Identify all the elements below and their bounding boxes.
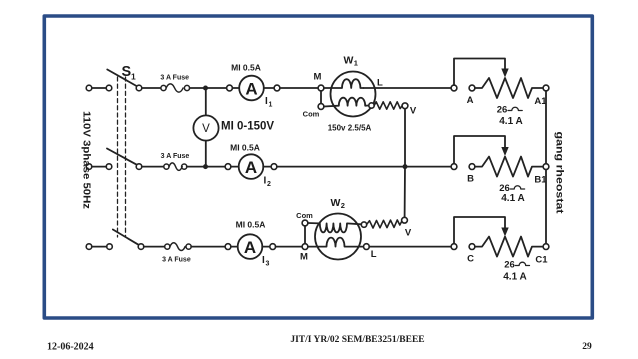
svg-text:V: V (202, 123, 210, 135)
W1 voltage coil (324, 98, 369, 107)
svg-text:3: 3 (266, 261, 270, 268)
fuse F1 (3 A Fuse) (161, 84, 190, 92)
switch S1 pole 3 contact (138, 244, 144, 250)
svg-text:S: S (122, 64, 132, 80)
switch S1 pole 2 contact (136, 164, 142, 170)
W2 voltage coil (308, 223, 361, 232)
wire (232, 87, 239, 89)
W2 voltage-coil terminal (361, 222, 366, 227)
W1 voltage-coil terminal (369, 103, 374, 108)
svg-text:1: 1 (131, 71, 136, 81)
wire: W2 Com-M link (304, 226, 306, 244)
svg-text:M: M (300, 252, 308, 263)
rheostat C terminal C (469, 244, 475, 250)
wattmeter W1 body (331, 72, 376, 117)
fuse F3 (3 A Fuse) (165, 243, 192, 251)
W1 terminal M (318, 85, 324, 91)
wire (263, 166, 271, 168)
rheostat C feed terminal (451, 244, 457, 250)
svg-text:Com: Com (296, 211, 313, 220)
svg-text:W: W (344, 55, 354, 67)
slide border frame (44, 16, 592, 318)
wire: supply pair link row 3 (92, 246, 107, 248)
svg-text:Com: Com (303, 110, 320, 119)
node: supply terminals row 2 (86, 164, 112, 170)
resistor: W1 multiplier zigzag (374, 102, 402, 109)
svg-text:4.1 A: 4.1 A (503, 272, 527, 283)
wire: rheostat B wiper feed (454, 136, 505, 164)
voltmeter V (MI 0-150V) (193, 115, 218, 140)
svg-text:2: 2 (267, 181, 271, 188)
W2 terminal Com (302, 220, 308, 226)
wire: supply pair link row 1 (92, 87, 106, 89)
svg-text:3 A Fuse: 3 A Fuse (161, 153, 190, 160)
rheostat B terminal B1 (543, 164, 549, 170)
W1 terminal Com (318, 104, 324, 110)
switch S1 pole 1 contact (136, 85, 142, 91)
svg-text:V: V (410, 106, 417, 117)
wire: star bus A1-B1 (545, 91, 547, 164)
svg-text:B: B (467, 174, 474, 185)
wire: voltmeter to row 2 (205, 141, 207, 165)
svg-text:4.1 A: 4.1 A (499, 116, 523, 127)
svg-text:W: W (331, 197, 341, 209)
terminal after ammeter A1 (274, 85, 280, 91)
rheostat C wiper arrow (501, 228, 508, 237)
rheostat B feed terminal (451, 164, 457, 170)
label 26 ohm (A) (497, 105, 522, 116)
wire: voltmeter tap down (205, 88, 207, 115)
terminal after ammeter A2 (271, 164, 277, 170)
svg-text:A: A (245, 79, 257, 98)
resistor: W2 multiplier zigzag (367, 220, 402, 228)
wire (262, 246, 270, 248)
wire row3 to wattmeter W2 M (276, 246, 303, 248)
terminal before ammeter A3 (225, 244, 231, 250)
wire row 1: contact to fuse (142, 87, 161, 89)
fuse F2 (3 A Fuse) (164, 163, 187, 171)
wire: star bus B1-C1 (545, 170, 547, 244)
wire (264, 87, 274, 89)
label S1 (122, 64, 137, 82)
node: 3-phase supply terminals row 1 (86, 85, 112, 91)
label 26 ohm (B) (499, 183, 524, 194)
wire (231, 246, 238, 248)
ammeter A3 (MI 0.5A) (238, 234, 263, 259)
node: supply terminals row 3 (86, 244, 112, 250)
svg-text:2: 2 (341, 201, 345, 210)
wire row 1: fuse to ammeter terminal (190, 87, 227, 89)
W1 terminal V (402, 103, 408, 109)
wire: rheostat C wiper feed (454, 217, 505, 244)
wire (231, 166, 239, 168)
svg-text:1: 1 (269, 102, 273, 109)
wire row 3: contact to fuse (144, 246, 165, 248)
W2 current coil (308, 238, 364, 247)
svg-text:3 A Fuse: 3 A Fuse (162, 257, 191, 264)
svg-text:L: L (371, 249, 377, 260)
W1 current coil (324, 79, 364, 88)
W2 terminal M (302, 244, 308, 250)
wire: supply pair link row 2 (92, 166, 106, 168)
svg-text:A: A (467, 95, 474, 106)
ammeter A2 (MI 0.5A) (239, 154, 264, 179)
rheostat B winding (475, 157, 543, 177)
label I2 (264, 176, 272, 189)
svg-text:12-06-2024: 12-06-2024 (47, 342, 94, 353)
rheostat C winding (475, 237, 543, 257)
svg-text:C1: C1 (535, 255, 548, 266)
svg-text:gang rheostat: gang rheostat (554, 132, 566, 215)
wattmeter W2 body (315, 214, 361, 260)
label I3 (262, 255, 270, 268)
switch S1 pole 2 blade (107, 149, 137, 165)
svg-text:A: A (244, 238, 256, 257)
label W1 (344, 55, 358, 68)
gang-link dashed line right (125, 77, 127, 237)
svg-text:3 A Fuse: 3 A Fuse (160, 75, 189, 82)
svg-text:MI 0-150V: MI 0-150V (221, 121, 274, 133)
svg-text:26: 26 (504, 260, 515, 271)
label I1 (265, 96, 273, 109)
label W2 (331, 197, 345, 210)
svg-text:4.1 A: 4.1 A (501, 193, 525, 204)
wire: rheostat A wiper feed (454, 59, 505, 86)
gang-link dashed line left (117, 77, 119, 237)
terminal before ammeter A1 (227, 85, 233, 91)
svg-text:V: V (405, 228, 412, 239)
junction row2 wattmeter voltage bus (403, 164, 408, 169)
terminal before ammeter A2 (225, 164, 231, 170)
rheostat B wiper arrow (501, 147, 508, 156)
rheostat A wiper arrow (501, 69, 508, 78)
svg-text:MI 0.5A: MI 0.5A (231, 63, 261, 73)
rheostat A terminal A1 (543, 85, 549, 91)
W2 terminal V (402, 217, 408, 223)
W2 terminal L (364, 244, 370, 250)
svg-text:L: L (377, 78, 383, 89)
wire: W1 M-Com link (320, 91, 322, 104)
wire row 3: fuse to ammeter (191, 246, 225, 248)
wire row3: W2 L to rheostat C feed (369, 246, 451, 248)
wire row2 to rheostat B feed (277, 166, 451, 168)
svg-text:JIT/I YR/02 SEM/BE3251/BEEE: JIT/I YR/02 SEM/BE3251/BEEE (290, 335, 424, 345)
wire row1: W1 to rheostat A feed (364, 87, 452, 89)
svg-text:MI 0.5A: MI 0.5A (230, 143, 260, 153)
wire: row2 junction down to W2 V terminal (404, 167, 406, 218)
svg-text:110V 3phase 50Hz: 110V 3phase 50Hz (81, 111, 93, 209)
svg-text:MI 0.5A: MI 0.5A (236, 220, 266, 230)
svg-text:150v 2.5/5A: 150v 2.5/5A (328, 124, 372, 133)
rheostat A feed terminal (451, 85, 457, 91)
wire row 2: fuse to ammeter (187, 166, 225, 168)
rheostat A winding (475, 78, 543, 98)
ammeter A1 (MI 0.5A) (239, 76, 264, 101)
rheostat B terminal B (469, 164, 475, 170)
junction row1 / voltmeter tap (203, 86, 208, 91)
svg-text:26: 26 (497, 105, 508, 116)
rheostat A terminal A (469, 85, 475, 91)
wire row 2: contact to fuse (142, 166, 164, 168)
svg-text:1: 1 (354, 59, 358, 68)
rheostat C terminal C1 (543, 244, 549, 250)
svg-text:M: M (314, 72, 322, 83)
junction row2 / voltmeter tap (203, 164, 208, 169)
svg-text:29: 29 (582, 342, 592, 352)
svg-text:A: A (245, 158, 257, 177)
switch S1 pole 3 blade (113, 230, 139, 245)
terminal after ammeter A3 (270, 244, 276, 250)
label 26 ohm (C) (504, 260, 529, 271)
switch S1 pole 1 blade (107, 70, 136, 87)
wire row1 to wattmeter M (280, 87, 318, 89)
wire: W1 V terminal down to row 2 (404, 109, 406, 165)
svg-text:C: C (467, 254, 474, 265)
